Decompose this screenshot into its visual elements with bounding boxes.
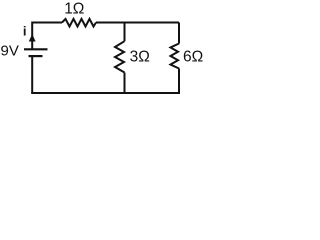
- svg-text:9V: 9V: [1, 42, 19, 59]
- resistor R1 1Ω (horizontal zigzag on top wire): [62, 19, 96, 27]
- wire: right branch from 6Ω down to bottom-right corner: [178, 69, 180, 94]
- resistor R2 3Ω (vertical zigzag, middle branch): [115, 41, 125, 72]
- wire: right branch from top-right corner down to 6Ω: [178, 23, 180, 44]
- wire: middle branch from 3Ω down to bottom wire: [124, 73, 126, 94]
- wire: bottom wire from bottom-left corner to bottom-right corner: [31, 92, 180, 94]
- battery V1 9V: short negative plate: [29, 55, 43, 57]
- svg-text:6Ω: 6Ω: [183, 48, 203, 65]
- resistor R3 6Ω (vertical zigzag, right branch): [171, 44, 180, 69]
- wire: top wire from middle junction to top-right corner: [125, 22, 180, 24]
- wire: middle branch from top junction down to 3Ω: [124, 22, 126, 42]
- svg-text:3Ω: 3Ω: [130, 49, 150, 66]
- current arrow i (pointing up on left wire): [29, 34, 36, 42]
- wire: battery + terminal up to top-left corner and right to 1Ω resistor: [32, 23, 62, 50]
- wire: top wire from 1Ω to middle junction: [96, 22, 125, 24]
- battery V1 9V: long positive plate: [24, 48, 48, 50]
- wire: battery - terminal down to bottom-left corner: [31, 56, 33, 93]
- svg-text:i: i: [23, 23, 27, 38]
- svg-text:1Ω: 1Ω: [64, 1, 84, 18]
